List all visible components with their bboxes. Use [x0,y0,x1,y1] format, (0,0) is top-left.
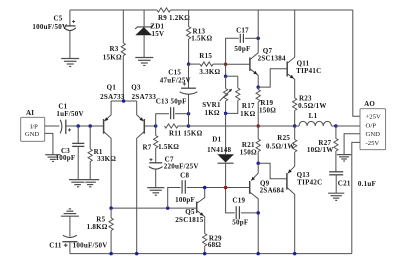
svg-text:D1: D1 [212,136,221,144]
node: R15 / C17 / Q7 base / bias chain (red) [224,62,228,66]
node: R13/R15/C15 junction [187,62,191,66]
node: D1 / Q9 base / C19 (red) [224,186,228,190]
ground (below C5) [61,58,79,60]
node: L1 / R27 / O-P [334,124,338,128]
svg-text:1KΩ: 1KΩ [240,110,255,118]
svg-text:L1: L1 [309,112,318,120]
svg-text:R11 15KΩ: R11 15KΩ [169,130,203,138]
node: SVR1/R17 bottom [224,112,228,116]
node: Q1 collector / R5 [109,206,113,210]
svg-text:100uF/50V: 100uF/50V [73,242,108,250]
wire: to AO O/P pin [336,125,360,127]
svg-text:SVR1: SVR1 [202,101,221,109]
svg-text:Q3: Q3 [131,84,141,92]
svg-text:1uF/50V: 1uF/50V [56,110,83,118]
resistor R17 (1K ohm) [237,76,239,88]
svg-text:C13 50pF: C13 50pF [156,97,187,105]
transistor Q1 (2SA733 PNP) [103,119,105,134]
node: Q5 collector / C8 (blue) [203,186,207,190]
svg-text:1N4148: 1N4148 [207,146,231,154]
svg-text:68Ω: 68Ω [208,241,222,249]
svg-text:R15: R15 [199,52,212,60]
svg-text:R17: R17 [242,102,255,110]
resistor R7 (1.5K ohm) [155,126,157,136]
svg-text:+25V: +25V [366,113,381,120]
svg-text:O/P: O/P [366,123,377,130]
svg-text:C8: C8 [180,172,189,180]
svg-text:1KΩ: 1KΩ [204,109,219,117]
svg-text:100pF: 100pF [175,196,195,204]
transistor Q9 (2SA684 PNP driver) [249,181,251,194]
svg-text:1.5KΩ: 1.5KΩ [191,35,212,43]
svg-text:R25: R25 [277,134,290,142]
svg-text:C17: C17 [236,26,249,34]
wire: Q5 collector / D1 / Q9 base node [205,187,226,189]
svg-text:100uF/50V: 100uF/50V [32,23,67,31]
transistor Q3 (2SA733 PNP) [143,119,145,134]
svg-text:15V: 15V [151,30,164,38]
resistor R29 (68 ohm) [203,234,207,247]
svg-text:1.8KΩ: 1.8KΩ [87,223,108,231]
svg-text:0.1uF: 0.1uF [358,180,376,188]
svg-text:0.5Ω/1W: 0.5Ω/1W [298,102,327,110]
svg-text:100pF: 100pF [56,154,76,162]
capacitor C15 (47uF/25V bootstrap) [188,64,190,88]
svg-text:3.3KΩ: 3.3KΩ [199,68,220,76]
preset SVR1 (1K ohm) [225,76,227,88]
svg-text:2SC1815: 2SC1815 [175,216,203,224]
svg-text:0.5Ω/1W: 0.5Ω/1W [266,143,295,151]
node: C8 left junction [166,206,170,210]
ground (below C7) [147,187,164,189]
node: emitter rail / R3 [122,99,126,103]
wire: AI GND to ground [45,133,53,154]
wire: C1 to Q1 base [66,125,104,127]
svg-text:33KΩ: 33KΩ [97,155,116,163]
diode D1 (1N4148 bias) [225,113,227,154]
ground (below ZD1) [135,57,153,59]
wire: -25V bottom supply rail [70,253,352,255]
node: C3 junction [76,124,80,128]
capacitor C3 (100pF) [77,126,79,143]
node: Q3 collector / rail [135,252,139,256]
resistor R27 (10 ohm/1W Zobel) [335,126,337,139]
wire: Q13 base route [258,163,287,179]
svg-text:50pF: 50pF [232,219,248,227]
svg-text:AO: AO [364,100,375,108]
wire: +25V top supply rail (left of R9) [70,9,157,11]
svg-text:GND: GND [366,131,381,138]
node: R21 / Q9 emitter / Q13 base [256,161,260,165]
wire: Q9 base [226,187,250,189]
capacitor C7 (220uF/25V) [149,162,162,164]
svg-text:-25V: -25V [366,140,380,147]
svg-text:AI: AI [26,109,34,117]
ground (AI GND) [45,154,60,156]
resistor R5 (1.8K ohm) [110,208,112,218]
node: C17 / Q7 collector [256,37,260,41]
wire: Q1/Q3 emitter rail [111,100,137,102]
node: R19/R21/output rail (red) [256,124,260,128]
svg-text:Q1: Q1 [107,84,117,92]
node: SVR1/R17 top [224,74,228,78]
svg-text:50pF: 50pF [234,45,250,53]
capacitor C19 (50pF) [226,188,235,213]
capacitor C5 (100uF/50V supply decoupling) [69,10,71,26]
svg-text:2SA733: 2SA733 [100,93,125,101]
svg-text:R3: R3 [109,45,118,53]
transistor Q13 (TIP42C PNP output) [286,173,288,190]
svg-text:GND: GND [25,131,40,138]
output connector AO box [360,109,386,150]
wire: Q1 collector to Q5 base [111,207,197,209]
svg-text:10Ω/1W: 10Ω/1W [307,146,334,154]
wire: output / feedback rail [189,125,259,127]
resistor R25 (0.5 ohm/1W emitter) [294,126,296,140]
node: C13 / C15 junction [187,112,191,116]
node: C19 / Q9 collector [256,211,260,215]
node: R11 / C15 / output rail [187,124,191,128]
svg-text:15KΩ: 15KΩ [103,54,122,62]
svg-text:2SA684: 2SA684 [260,187,285,195]
input connector AI box [21,117,45,141]
svg-text:I/P: I/P [30,123,38,130]
svg-text:TIP41C: TIP41C [296,67,321,75]
node: R29 / rail [203,252,207,256]
capacitor C17 (50pF) [226,38,239,64]
ground (AO GND) [337,154,351,156]
capacitor C11 (100uF/50V supply decoupling) [61,215,79,217]
svg-text:220uF/25V: 220uF/25V [164,163,199,171]
wire: AO -25V to bottom rail [352,142,360,253]
node: R5 / rail [109,252,113,256]
resistor R23 (0.5 ohm/1W emitter) [293,98,297,111]
node: Q3 base / R7 / C13 / R11 [154,124,158,128]
resistor R21 (150 ohm) [257,126,259,139]
wire: AO GND to ground [344,134,360,155]
svg-text:TIP42C: TIP42C [297,178,322,186]
resistor R13 (1.5K ohm) [188,10,190,27]
capacitor C13 (50pF, across R11) [156,114,169,126]
zener diode ZD1 (15V) [143,10,145,27]
resistor R15 (3.3K ohm) [189,63,200,65]
svg-text:C15: C15 [168,68,181,76]
capacitor C1 (1uF/50V input coupling) [60,120,62,134]
svg-text:R9 1.2KΩ: R9 1.2KΩ [158,14,190,22]
svg-text:47uF/25V: 47uF/25V [160,76,191,84]
transistor Q5 (2SC1815 NPN VAS) [196,202,198,214]
resistor R3 (15K ohm) [122,10,124,43]
svg-text:1.5KΩ: 1.5KΩ [158,143,179,151]
svg-text:R7: R7 [142,144,151,152]
svg-text:C11: C11 [49,242,62,250]
svg-text:C5: C5 [53,14,62,22]
svg-text:C21: C21 [338,180,351,188]
svg-text:150Ω: 150Ω [240,148,257,156]
node: output node (R23/R25/L1) [293,124,297,128]
wire: Q3 base to feedback node [144,125,155,127]
svg-text:Q7: Q7 [263,47,273,55]
resistor R19 (150 ohm) [257,87,259,89]
capacitor C21 (0.1uF Zobel) [329,171,343,173]
svg-text:2SA733: 2SA733 [132,93,157,101]
svg-text:150Ω: 150Ω [259,107,276,115]
inductor L1 [295,125,299,127]
node: Q7 emitter / R19 / Q11 base [256,85,260,89]
node: R1 junction [88,124,92,128]
wire: +25V top supply rail (right of R9) [171,9,353,11]
node: Q9 collector / rail [256,252,260,256]
node: Q13 collector / rail [293,252,297,256]
wire: +25V feed down to AO box [353,10,360,116]
resistor R11 (15K ohm feedback) [165,124,179,128]
transistor Q11 (TIP41C NPN output) [286,62,288,77]
ground (shared, below C3 and R1) [69,179,99,181]
resistor R1 (33K ohm) [89,126,91,149]
wire: Q11 base route [258,69,287,87]
svg-text:C19: C19 [232,196,245,204]
wire: bias chain top split [225,64,227,76]
resistor R9 (1.2K ohm, in +25V rail) [157,8,171,12]
ground (below C21) [328,192,344,194]
capacitor C8 (100pF, Q5 b-c) [168,188,181,209]
transistor Q7 (2SC1384 NPN driver) [226,63,250,65]
wire: AI I/P to C1 [45,125,60,127]
svg-text:2SC1384: 2SC1384 [258,55,286,63]
